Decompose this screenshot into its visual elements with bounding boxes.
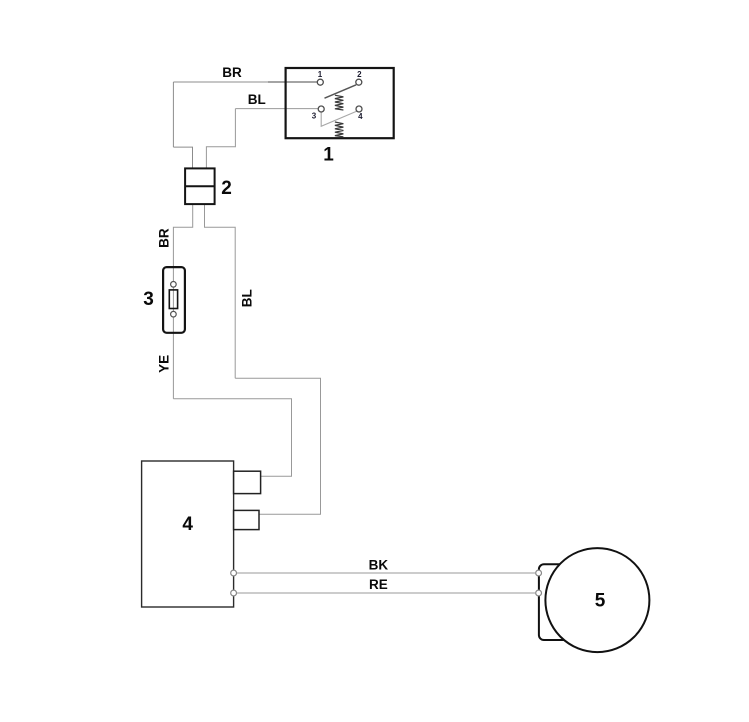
control unit U4 body <box>142 461 234 607</box>
svg-text:BK: BK <box>369 558 389 573</box>
unit 4 terminal circle RE <box>231 590 237 596</box>
spring lower <box>335 122 344 137</box>
svg-text:3: 3 <box>143 289 154 310</box>
svg-text:BR: BR <box>156 228 171 248</box>
fuse element rectangle <box>169 290 177 309</box>
spring upper <box>335 95 344 110</box>
svg-text:4: 4 <box>182 514 193 535</box>
wire RE from unit 4 to motor 5 <box>236 592 535 594</box>
wire YE run to unit 4 upper tab <box>173 399 291 476</box>
svg-text:1: 1 <box>318 70 323 79</box>
svg-text:1: 1 <box>323 144 334 165</box>
svg-text:BL: BL <box>248 92 266 107</box>
pin 4 circle <box>356 106 362 112</box>
svg-text:4: 4 <box>358 112 363 121</box>
unit 4 upper tab <box>234 471 261 493</box>
svg-text:BR: BR <box>222 65 242 80</box>
wire jog into connector 2 top-left <box>173 147 192 168</box>
svg-text:5: 5 <box>595 591 606 612</box>
fuse bottom terminal circle <box>171 311 177 317</box>
pin 3 circle <box>318 106 324 112</box>
bracket terminal circle RE <box>536 590 542 596</box>
wire BR horizontal to switch pin 1 <box>173 81 317 83</box>
switch top lever (pin 2) <box>325 85 357 98</box>
wire BL horizontal to switch pin 3 <box>235 108 318 110</box>
wire BL down-jog into connector 2 top-right <box>206 109 235 169</box>
svg-text:RE: RE <box>369 577 388 592</box>
unit 4 lower tab <box>234 510 259 529</box>
switch unit U1 body <box>286 68 394 138</box>
svg-text:BL: BL <box>240 289 255 307</box>
pin 1 circle <box>317 79 323 85</box>
wire BR left vertical <box>172 82 174 147</box>
wire BK from unit 4 to motor 5 <box>236 572 535 574</box>
connector C2 divider <box>185 185 215 187</box>
switch bottom contact link (pin 3 to pin 4) <box>321 111 356 126</box>
fuse top terminal circle <box>171 282 177 288</box>
connector C2 body <box>185 168 215 204</box>
wire from connector 2 bottom-right <box>205 204 236 378</box>
svg-text:2: 2 <box>221 178 232 199</box>
motor M5 body circle <box>545 548 649 652</box>
wire from connector 2 bottom-left toward fuse <box>173 204 192 399</box>
pin 2 circle <box>356 79 362 85</box>
unit 4 terminal circle BK <box>231 570 237 576</box>
svg-text:3: 3 <box>312 112 317 121</box>
fuse F3 body <box>163 267 185 333</box>
motor 5 mounting bracket <box>539 564 599 640</box>
svg-text:YE: YE <box>156 355 171 373</box>
wire BL run to unit 4 lower tab <box>235 378 320 514</box>
wire BR dark segment near pin 1 <box>268 81 317 83</box>
svg-text:2: 2 <box>357 70 362 79</box>
bracket terminal circle BK <box>536 570 542 576</box>
